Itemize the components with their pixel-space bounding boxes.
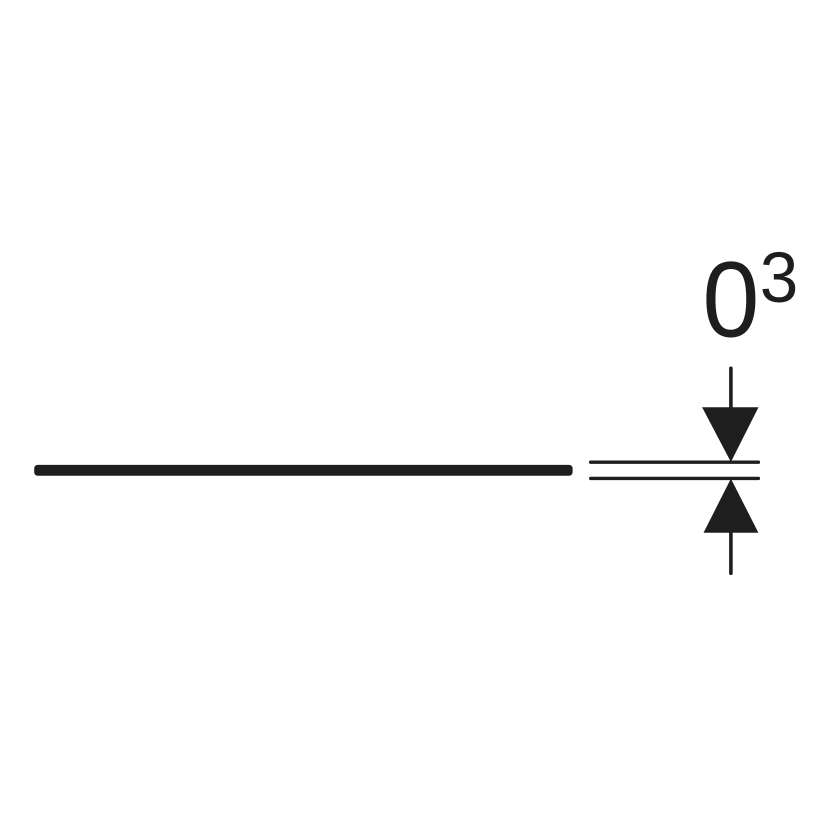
svg-text:0: 0	[702, 240, 759, 360]
wall surface top line	[591, 461, 759, 464]
lower dimension leader line	[729, 528, 733, 573]
wall surface bottom line	[591, 477, 759, 480]
lower dimension arrowhead	[704, 479, 759, 533]
panel edge (thick bar)	[34, 465, 572, 476]
svg-text:3: 3	[760, 237, 799, 317]
upper dimension leader line	[729, 368, 733, 412]
upper dimension arrowhead	[702, 407, 758, 462]
